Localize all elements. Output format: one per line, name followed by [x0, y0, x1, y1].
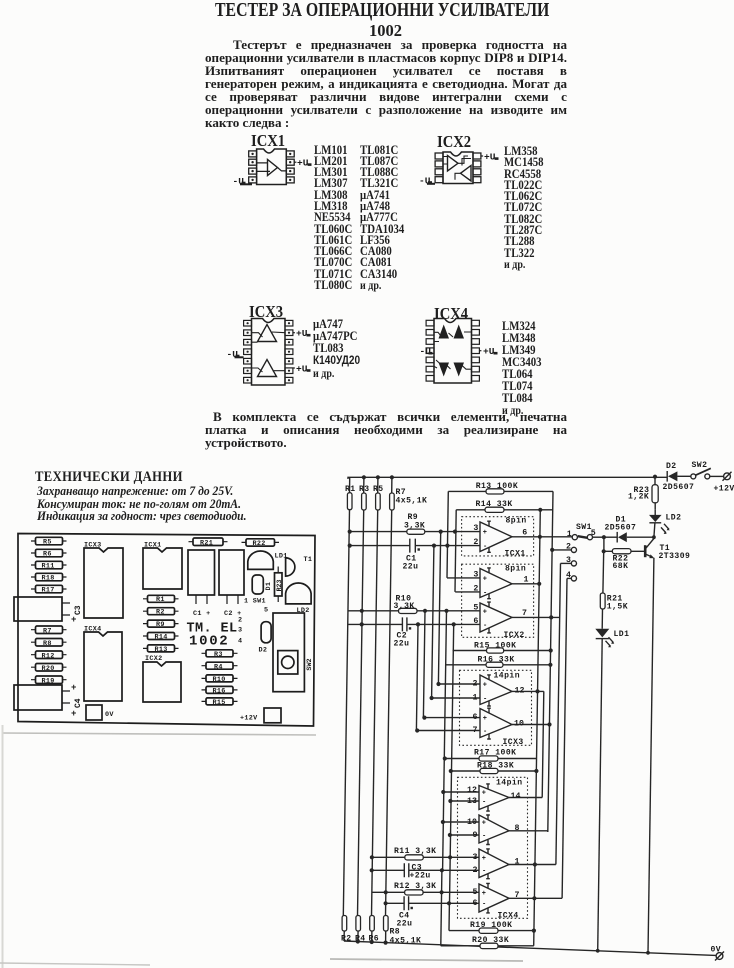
svg-text:2D5607: 2D5607: [663, 483, 695, 492]
wire column c4: [386, 510, 392, 916]
svg-text:+: +: [483, 576, 487, 584]
svg-text:2: 2: [473, 680, 478, 689]
capacitor C4 with input wire to ICX4 pin 6: [384, 896, 481, 928]
op-amp ICX4-B: [479, 815, 509, 845]
svg-text:+: +: [71, 683, 76, 693]
wire bus r6 (from SW1 contact 4): [562, 578, 567, 898]
resistor R23: [628, 475, 658, 510]
svg-text:3: 3: [473, 570, 478, 579]
svg-text:22u: 22u: [403, 563, 419, 572]
svg-text:+: +: [483, 608, 487, 616]
wire to ICX3 pin 2: [436, 682, 480, 686]
resistor R7: [390, 475, 428, 510]
heading ICX2: [437, 132, 471, 152]
resistor R2: [143, 608, 179, 617]
ICX2 right pins: [473, 153, 481, 183]
switch SW1 pads: [238, 598, 268, 646]
scan artifact lines: [0, 725, 734, 968]
svg-text:7: 7: [522, 609, 527, 618]
ICX4-B pin labels: [467, 818, 520, 840]
svg-text:R16 33K: R16 33K: [478, 656, 515, 665]
svg-text:2: 2: [473, 538, 478, 547]
resistor R10 with input wire to ICX2 pin 5: [349, 595, 481, 614]
IC ICX2 outline: [143, 655, 181, 702]
svg-text:3: 3: [238, 627, 242, 635]
svg-text:R15: R15: [213, 699, 226, 707]
svg-text:R15 100K: R15 100K: [474, 641, 516, 650]
paragraph 2: [205, 410, 567, 449]
svg-text:+: +: [483, 715, 487, 723]
resistor R6: [369, 916, 380, 944]
wire column c1 (R1 bottom bus): [343, 510, 349, 916]
svg-text:+U: +U: [483, 346, 495, 357]
node SW1 contact 3: [561, 556, 577, 566]
svg-text:R1: R1: [345, 485, 356, 494]
resistor R3: [359, 475, 370, 510]
ICX3 right pins: [285, 320, 293, 383]
wire T1 emitter to ground rail: [648, 558, 654, 953]
wire ICX4-B output (pin 8): [509, 830, 548, 832]
svg-text:8pin: 8pin: [505, 565, 526, 574]
wire bus r3: [548, 491, 553, 832]
IC box ICX2: [462, 564, 534, 640]
wire ICX1 B pin3 input: [447, 577, 480, 579]
ICX3 +Ua supply label: [293, 328, 311, 339]
svg-text:D2: D2: [259, 647, 268, 655]
subtitle 1002: [369, 21, 402, 41]
svg-text:-U: -U: [419, 176, 431, 187]
ICX4 -U supply label: [420, 346, 433, 357]
svg-text:R11: R11: [42, 563, 55, 571]
svg-text:R6: R6: [43, 551, 52, 559]
IC box ICX3: [460, 670, 532, 747]
node 0V terminal: [711, 946, 725, 961]
resistor R22: [602, 537, 646, 571]
ICX3 op-amp A triangle (up): [258, 325, 277, 342]
wire ICX3-A output (pin 12): [512, 689, 544, 797]
ICX2 -U supply label: [419, 176, 435, 187]
svg-text:R9: R9: [156, 621, 165, 629]
ICX4 op-amp B arrow (up): [454, 325, 465, 339]
resistor R16: [202, 686, 238, 695]
resistor R2: [341, 916, 352, 944]
wire ICX4-C output (pin 1): [509, 862, 556, 866]
wire bus m3: [432, 546, 434, 698]
resistor R3: [202, 650, 238, 659]
LED LD2: [286, 583, 312, 615]
svg-text:1,2K: 1,2K: [628, 493, 649, 502]
svg-text:-: -: [483, 695, 487, 703]
wire ground rail: [344, 939, 716, 955]
wire to ICX4 pin 10: [441, 820, 480, 824]
resistor R9: [143, 620, 179, 629]
resistor R15: [202, 698, 238, 707]
wire to ICX3 pin 1: [430, 696, 481, 700]
IC box ICX1: [462, 517, 534, 559]
IC package diagram ICX4 (DIP14 quad op-amp): [415, 313, 510, 391]
node SW1 contact 4: [566, 571, 577, 581]
heading ICX3: [249, 302, 283, 322]
svg-text:68K: 68K: [613, 562, 629, 571]
ICX4 op-amp A arrow (up): [439, 325, 450, 339]
svg-text:R5: R5: [373, 485, 384, 494]
svg-text:5: 5: [473, 603, 478, 612]
svg-text:ICX2: ICX2: [504, 631, 525, 640]
svg-text:+U: +U: [296, 328, 308, 339]
ICX4 op-amp D arrow (down): [454, 363, 465, 377]
diode D1: [604, 516, 654, 543]
node dots on bus R: [537, 690, 539, 692]
ICX2 op-amp A triangle: [448, 156, 459, 172]
list ICX1 column 1: [314, 145, 352, 292]
ICX4 op-amp C arrow (down): [439, 363, 450, 377]
wire to ICX4 pin 13: [448, 799, 480, 803]
+12V pad: [240, 708, 281, 723]
svg-text:R22: R22: [253, 540, 266, 548]
wire column c3: [372, 510, 378, 916]
wire ICX4-D output (pin 7): [509, 896, 562, 900]
capacitor C3 with input wire to ICX4 pin 2: [370, 863, 480, 880]
switch SW2: [691, 461, 724, 479]
svg-text:8pin: 8pin: [506, 517, 527, 526]
svg-text:-U: -U: [233, 176, 245, 187]
wire bus m4: [438, 532, 440, 684]
resistor R14: [143, 633, 179, 642]
resistor R17: [443, 749, 537, 762]
svg-text:5: 5: [264, 607, 268, 615]
list ICX4: [502, 320, 542, 418]
capacitor C2 with input wire to ICX2 pin 6: [348, 617, 480, 648]
svg-text:+12V: +12V: [240, 715, 258, 723]
svg-text:+U: +U: [297, 158, 309, 169]
resistor R4: [202, 662, 238, 671]
op-amp ICX4-A: [479, 784, 509, 811]
wire ICX2-B output (pin 7): [512, 615, 560, 619]
op-amp ICX3-B: [480, 708, 512, 739]
ICX3 pin dots: [247, 322, 291, 381]
svg-text:3: 3: [473, 524, 478, 533]
ICX1-A pin labels: [473, 524, 527, 547]
resistor R18: [449, 761, 539, 773]
svg-text:3,3K: 3,3K: [404, 521, 425, 530]
ICX1 DIP8 body: [257, 149, 287, 185]
ICX2 +U supply label: [481, 152, 499, 163]
svg-text:4: 4: [238, 638, 242, 646]
op-amp ICX2-B: [480, 602, 512, 633]
ICX1 left pins: [249, 151, 257, 183]
svg-text:14pin: 14pin: [494, 672, 521, 681]
wire to ICX4 pin 12: [441, 790, 480, 794]
resistor R8: [31, 639, 67, 648]
ICX1 +U supply label: [294, 158, 311, 169]
ICX4-A pin labels: [467, 786, 520, 806]
svg-text:-: -: [483, 589, 487, 597]
svg-text:C1 +: C1 +: [193, 610, 211, 618]
wire ICX1-B output (pin 1): [512, 582, 541, 586]
svg-text:R14: R14: [155, 633, 168, 641]
svg-text:R13 100K: R13 100K: [476, 482, 518, 491]
wire to ICX3 pin 6: [422, 716, 480, 720]
svg-text:R21: R21: [200, 539, 213, 547]
resistor R10: [202, 675, 238, 684]
wire bus m2: [423, 611, 425, 718]
ICX2 left pins: [435, 153, 443, 183]
svg-text:SW1: SW1: [576, 523, 592, 532]
capacitor C1 body: [188, 550, 215, 618]
svg-text:+U: +U: [296, 364, 308, 375]
ICX4 +U supply label: [479, 346, 497, 357]
svg-text:R18: R18: [42, 575, 55, 583]
ICX3 internal wires: [252, 332, 286, 372]
IC package diagram ICX1 (DIP8 single op-amp): [228, 144, 318, 192]
resistor R11 with input wire to ICX4 pin 3: [370, 847, 480, 860]
ICX4 left pins: [426, 320, 434, 381]
svg-text:R7: R7: [43, 627, 52, 635]
IC package diagram ICX3 (DIP14 dual op-amp): [222, 313, 317, 393]
capacitor C2 body: [219, 550, 244, 618]
svg-text:1: 1: [567, 530, 572, 539]
ICX3 +Ub supply label: [293, 364, 311, 375]
svg-text:LD1: LD1: [614, 630, 630, 639]
resistor R12: [31, 651, 67, 660]
svg-text:22u: 22u: [394, 640, 410, 649]
wire ICX1 B pin2 input: [455, 591, 480, 593]
svg-text:+: +: [71, 615, 76, 625]
svg-text:C3: C3: [74, 605, 83, 615]
svg-text:+: +: [71, 709, 76, 719]
svg-text:1002: 1002: [189, 634, 229, 650]
wire column c2: [358, 510, 364, 916]
svg-text:R16: R16: [213, 688, 226, 696]
switch SW2: [273, 613, 314, 692]
resistor R14: [455, 500, 553, 592]
resistor R4: [355, 916, 366, 944]
schematic drawing: [328, 450, 734, 968]
ICX2 DIP8 body: [443, 152, 473, 184]
switch SW1: [567, 523, 606, 540]
ICX1-B pin labels: [473, 570, 528, 593]
IC ICX1 outline: [143, 542, 182, 590]
svg-text:-U: -U: [420, 346, 432, 357]
ICX1 op-amp triangle: [268, 160, 278, 176]
capacitor C1 with input wire to ICX1 pin 2: [348, 539, 480, 572]
IC ICX4 outline: [84, 626, 122, 702]
svg-text:R1: R1: [156, 596, 165, 604]
resistor R12 with input wire to ICX4 pin 5: [372, 882, 481, 895]
resistor R19: [31, 676, 67, 685]
svg-text:+12V: +12V: [714, 485, 734, 494]
resistor R6: [31, 549, 67, 558]
resistor R1: [143, 595, 179, 604]
ICX3-B pin labels: [473, 713, 524, 735]
list ICX2: [504, 146, 544, 271]
svg-text:D1: D1: [265, 582, 273, 591]
resistor R17: [31, 585, 67, 594]
ICX1 right pins: [286, 151, 294, 183]
ICX3 left pins: [244, 320, 252, 383]
svg-text:R14 33K: R14 33K: [476, 500, 513, 509]
svg-text:SW2: SW2: [306, 658, 314, 670]
wire bus m1: [416, 624, 418, 730]
svg-text:D2: D2: [666, 462, 677, 471]
node +12V terminal: [714, 472, 734, 494]
svg-text:R3: R3: [214, 651, 223, 659]
svg-text:ICX1: ICX1: [505, 549, 526, 558]
resistor R13: [143, 645, 179, 654]
heading ICX1: [251, 131, 285, 151]
svg-text:R13: R13: [155, 646, 168, 654]
op-amp ICX1-A: [480, 521, 512, 552]
resistor R23: [275, 567, 283, 603]
wire to ICX4 pin 9: [448, 833, 480, 837]
svg-text:6: 6: [473, 617, 478, 626]
svg-text:6: 6: [522, 528, 527, 537]
resistor R11: [31, 561, 67, 570]
ICX4-D pin labels: [473, 888, 520, 908]
list ICX3: [313, 318, 360, 380]
ICX4 internal wires: [434, 332, 472, 369]
op-amp ICX4-C: [479, 849, 509, 879]
resistor R19: [449, 903, 536, 933]
svg-text:1 SW1: 1 SW1: [244, 598, 266, 606]
node SW1 contact 2: [550, 543, 576, 553]
list ICX1 column 2: [360, 145, 404, 293]
resistor R22: [242, 539, 280, 548]
ICX3 op-amp B triangle (up): [258, 360, 277, 377]
LED LD1: [248, 551, 288, 569]
svg-text:LD2: LD2: [666, 514, 682, 523]
wire bus r4 (from SW1 contact 3): [556, 563, 561, 864]
resistor R21: [189, 538, 228, 547]
ICX4 right pins: [472, 320, 480, 381]
wire to ICX3 pin 7: [415, 728, 480, 732]
resistor R13: [447, 482, 553, 578]
silkscreen TM.EL 1002: [187, 621, 238, 649]
svg-text:2: 2: [473, 584, 478, 593]
capacitor C3 polarity label: [71, 605, 83, 625]
connector X2: [14, 685, 70, 710]
svg-text:C4: C4: [74, 698, 83, 708]
IC box ICX4: [458, 777, 528, 920]
resistor R1: [345, 477, 356, 509]
svg-text:-U: -U: [227, 349, 239, 360]
diode D1: [252, 575, 273, 594]
title: [215, 0, 549, 22]
resistor R8: [384, 916, 422, 946]
wire ICX3-B output (pin 10): [512, 722, 552, 726]
op-amp ICX3-A: [480, 675, 512, 706]
svg-text:R17: R17: [42, 587, 55, 595]
svg-text:T1: T1: [304, 556, 313, 564]
svg-text:-: -: [483, 543, 487, 551]
svg-text:12: 12: [515, 687, 525, 696]
resistor R5: [31, 537, 67, 546]
resistor R15: [453, 641, 553, 653]
ICX1 input wires: [257, 163, 270, 172]
PCB layout drawing: [10, 528, 330, 740]
svg-text:2D5607: 2D5607: [605, 524, 637, 533]
ICX2 op-amp B triangle (mirrored): [461, 166, 472, 182]
ICX3 DIP14 body: [252, 319, 286, 386]
IC package diagram ICX2 (DIP8 dual op-amp): [415, 146, 503, 192]
resistor R16: [445, 656, 552, 668]
svg-text:R23: R23: [276, 579, 283, 591]
ICX4-C pin labels: [473, 853, 520, 875]
ICX2 internal wires: [443, 156, 471, 180]
ICX4 DIP14 body: [434, 319, 472, 384]
wire ICX1-A output (pin 6): [512, 535, 572, 539]
paragraph 1: [205, 38, 567, 129]
wire LD1 cathode to ground rail: [598, 639, 603, 951]
svg-text:1,5K: 1,5K: [607, 603, 628, 612]
svg-text:0V: 0V: [105, 711, 114, 719]
diode D2: [259, 622, 272, 655]
svg-text:R2: R2: [156, 609, 165, 617]
svg-text:3,3K: 3,3K: [394, 602, 415, 611]
heading technical data: [35, 469, 183, 486]
svg-text:1: 1: [524, 575, 529, 584]
resistor R21: [600, 551, 628, 628]
svg-text:-: -: [483, 622, 487, 630]
ICX3-A pin labels: [473, 680, 525, 703]
svg-text:6: 6: [473, 713, 478, 722]
svg-text:5: 5: [591, 529, 596, 538]
svg-text:R8: R8: [43, 640, 52, 648]
wire top supply rail: [348, 477, 667, 479]
svg-text:SW2: SW2: [692, 461, 708, 470]
PCB board outline: [18, 534, 315, 727]
op-amp ICX4-D: [479, 883, 509, 913]
wire bus m5: [443, 611, 447, 871]
diode D2: [663, 462, 695, 492]
transistor T1: [286, 556, 313, 576]
svg-text:+U: +U: [484, 152, 496, 163]
capacitor C4 polarity label: [71, 683, 83, 719]
connector X1: [14, 597, 70, 621]
svg-text:R12: R12: [42, 652, 55, 660]
ICX3 -U supply label: [227, 349, 244, 360]
ICX1 -U supply label: [233, 176, 253, 187]
svg-text:2: 2: [238, 617, 242, 625]
resistor R7: [31, 626, 67, 635]
wire bus R (long right vertical): [534, 510, 541, 946]
0V pad: [86, 705, 114, 720]
svg-text:+: +: [483, 682, 487, 690]
wire ICX4-A output (pin 14): [509, 797, 542, 799]
ICX1 output wire: [278, 168, 287, 171]
svg-text:4x5,1K: 4x5,1K: [396, 497, 428, 506]
transistor T1: [645, 539, 690, 561]
heading ICX4: [434, 304, 468, 324]
svg-text:R20: R20: [42, 665, 55, 673]
LED LD1: [595, 629, 629, 648]
resistor R9 with input wire to ICX1 pin 3: [348, 513, 480, 534]
technical data lines: [37, 485, 247, 523]
svg-text:R10: R10: [213, 676, 226, 684]
ICX1 pin dots: [251, 153, 291, 181]
svg-text:1: 1: [473, 694, 478, 703]
resistor R20: [441, 870, 534, 948]
svg-text:R3: R3: [359, 485, 370, 494]
op-amp ICX1-B: [480, 568, 512, 599]
resistor R20: [31, 664, 67, 673]
svg-text:R5: R5: [43, 539, 52, 547]
ICX2-B pin labels: [473, 603, 527, 626]
svg-text:2T3309: 2T3309: [659, 552, 691, 561]
LED LD2: [649, 510, 681, 539]
wire bus m6: [450, 624, 454, 903]
svg-text:R4: R4: [214, 663, 223, 671]
